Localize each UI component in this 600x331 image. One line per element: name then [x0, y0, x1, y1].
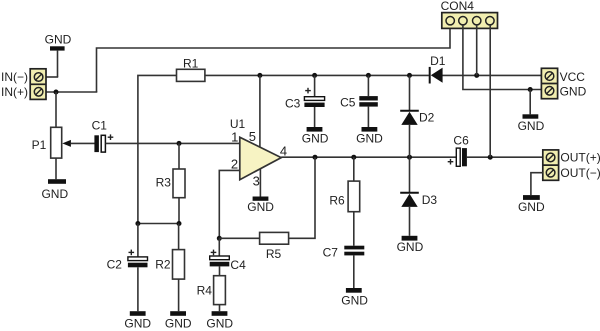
ground GND top-left	[45, 33, 72, 51]
ground GND under U1 pin3	[247, 197, 274, 215]
svg-text:GND: GND	[560, 85, 587, 99]
wire R2 bottom stem	[178, 279, 180, 311]
svg-text:GND: GND	[397, 240, 424, 254]
node CON4 pin4 junction	[488, 155, 493, 160]
svg-text:C4: C4	[230, 258, 246, 272]
wire C4 to R4 stem	[219, 266, 221, 275]
op-amp U1	[230, 117, 287, 189]
wire C7 bottom stem	[353, 255, 355, 288]
ground GND under OUT terminal	[518, 195, 545, 214]
wire IN(-) row	[44, 76, 59, 78]
node D2 junction	[407, 73, 412, 78]
wire R6 to C7 stem	[353, 212, 355, 246]
wire R2 top stem	[178, 224, 180, 250]
svg-text:GND: GND	[41, 187, 68, 201]
svg-text:GND: GND	[45, 33, 72, 47]
wire U1 pin2 input	[219, 170, 240, 238]
connector CON4	[441, 0, 498, 28]
wire D3 top stem	[409, 157, 411, 192]
wire P1 wiper to C1	[71, 142, 95, 144]
capacitor C1	[92, 119, 114, 153]
svg-text:GND: GND	[518, 200, 545, 214]
potentiometer P1	[32, 127, 71, 158]
svg-text:3: 3	[253, 174, 260, 189]
wire R4 bottom stem	[219, 305, 221, 312]
svg-text:VCC: VCC	[560, 70, 586, 84]
svg-text:R5: R5	[266, 247, 282, 261]
wire VCC rail	[205, 74, 429, 76]
resistor R6	[329, 181, 359, 212]
wire D3 bottom stem	[409, 207, 411, 236]
capacitor C2	[107, 250, 148, 272]
svg-text:R1: R1	[183, 57, 199, 71]
wire GND stem to IN(-)	[57, 51, 59, 77]
svg-text:IN(+): IN(+)	[1, 85, 28, 99]
wire VCC rail after D1	[442, 74, 541, 76]
wire P1 bottom stem	[55, 158, 57, 179]
svg-text:OUT(−): OUT(−)	[560, 166, 600, 180]
node CON4 pin3 junction	[474, 73, 479, 78]
ground GND under R2	[165, 311, 192, 331]
wire CON4 pin3 stem	[476, 25, 478, 76]
svg-text:R4: R4	[197, 284, 213, 298]
wire U1 pin3 stem	[259, 169, 261, 197]
wire C3 bottom stem	[314, 107, 316, 127]
node R6 junction	[351, 155, 356, 160]
svg-text:1: 1	[231, 130, 238, 145]
svg-text:GND: GND	[124, 317, 151, 331]
svg-text:D3: D3	[422, 193, 438, 207]
node C3 junction	[312, 73, 317, 78]
resistor R2	[155, 250, 184, 280]
ground GND under P1	[41, 179, 68, 201]
svg-text:R6: R6	[329, 194, 345, 208]
node R2 junction	[177, 221, 182, 226]
wire R6 top stem	[353, 157, 355, 181]
svg-text:GND: GND	[247, 200, 274, 214]
wire C5 bottom stem	[367, 107, 369, 127]
ground GND under C2	[124, 311, 151, 331]
svg-text:GND: GND	[356, 132, 383, 146]
svg-text:IN(−): IN(−)	[1, 70, 28, 84]
wire D2 bottom stem	[409, 125, 411, 157]
svg-text:P1: P1	[32, 138, 47, 152]
wire GND row stem	[529, 90, 531, 115]
svg-text:C2: C2	[107, 258, 123, 272]
node C5 junction	[366, 73, 371, 78]
wire D2 top stem	[409, 75, 411, 110]
wire IN(+) row	[44, 91, 98, 93]
wire IN(+) down to P1	[55, 92, 57, 128]
wire C1 to op-amp pin 1	[106, 142, 240, 144]
ground GND under C3	[302, 127, 329, 146]
node U1 pin5 junction	[257, 73, 262, 78]
node pin1/R3 junction	[177, 141, 182, 146]
svg-text:R2: R2	[155, 258, 171, 272]
svg-text:4: 4	[280, 143, 287, 158]
svg-text:GND: GND	[165, 317, 192, 331]
node C2 junction	[135, 221, 140, 226]
svg-text:C7: C7	[323, 246, 339, 260]
svg-text:GND: GND	[302, 132, 329, 146]
ground GND under D3	[397, 236, 424, 254]
svg-text:R3: R3	[156, 176, 172, 190]
node D2/D3 junction	[407, 155, 412, 160]
node feedback junction	[313, 155, 318, 160]
capacitor C3	[285, 88, 325, 111]
resistor R3	[156, 169, 185, 198]
svg-text:GND: GND	[206, 317, 233, 331]
diode D3	[400, 193, 437, 207]
node GND row junction	[528, 87, 533, 92]
wire R5 to pin2 node	[219, 237, 259, 239]
svg-text:OUT(+): OUT(+)	[560, 151, 600, 165]
svg-text:C5: C5	[340, 96, 356, 110]
wire C5 top stem	[367, 75, 369, 96]
svg-text:2: 2	[231, 157, 238, 172]
resistor R1	[177, 57, 205, 82]
svg-text:5: 5	[249, 129, 256, 144]
wire C3 top stem	[314, 75, 316, 96]
ground GND under C7	[341, 288, 368, 308]
capacitor C6	[448, 134, 469, 167]
wire output rail after C6	[467, 156, 543, 158]
wire CON4 pin4 stem	[489, 25, 491, 157]
svg-text:GND: GND	[518, 119, 545, 133]
wire C2 bottom stem	[137, 267, 139, 311]
ground GND under C5	[356, 127, 383, 146]
wire C2-R2 tie	[138, 223, 179, 225]
diode D1	[430, 54, 446, 83]
svg-text:C3: C3	[285, 96, 301, 110]
wire C2 top stem	[137, 224, 139, 257]
capacitor C4	[210, 250, 246, 272]
wire U1 pin5 supply	[259, 75, 261, 147]
svg-text:C1: C1	[92, 119, 108, 133]
ground GND under R4	[206, 311, 233, 331]
svg-text:C6: C6	[453, 134, 469, 148]
svg-text:D1: D1	[430, 54, 446, 68]
connector OUT terminal block	[543, 150, 559, 180]
capacitor C5	[340, 96, 378, 110]
node pin2/R5/C4 junction	[217, 236, 222, 241]
wire riser to top rail	[97, 26, 451, 92]
wire feedback loop	[289, 157, 315, 238]
wire R3 bottom stem	[178, 198, 180, 224]
svg-text:D2: D2	[419, 110, 435, 124]
wire OUT(-) to GND	[531, 173, 543, 195]
ground GND under VCC terminal	[518, 114, 545, 133]
node IN(+) junction	[54, 90, 59, 95]
connector VCC/GND terminal block	[541, 68, 557, 98]
resistor R4	[197, 276, 226, 305]
wire output rail	[281, 156, 456, 158]
resistor R5	[260, 232, 289, 261]
wire CON4 pin2 to GND row	[463, 25, 542, 90]
wire R1 left branch	[138, 75, 177, 223]
diode D2	[400, 110, 434, 125]
wire C4 top stem	[218, 238, 220, 256]
connector IN terminal block	[30, 69, 46, 100]
wire R3 top stem	[178, 143, 180, 169]
svg-text:CON4: CON4	[441, 0, 475, 13]
svg-text:GND: GND	[341, 294, 368, 308]
capacitor C7	[323, 246, 365, 260]
